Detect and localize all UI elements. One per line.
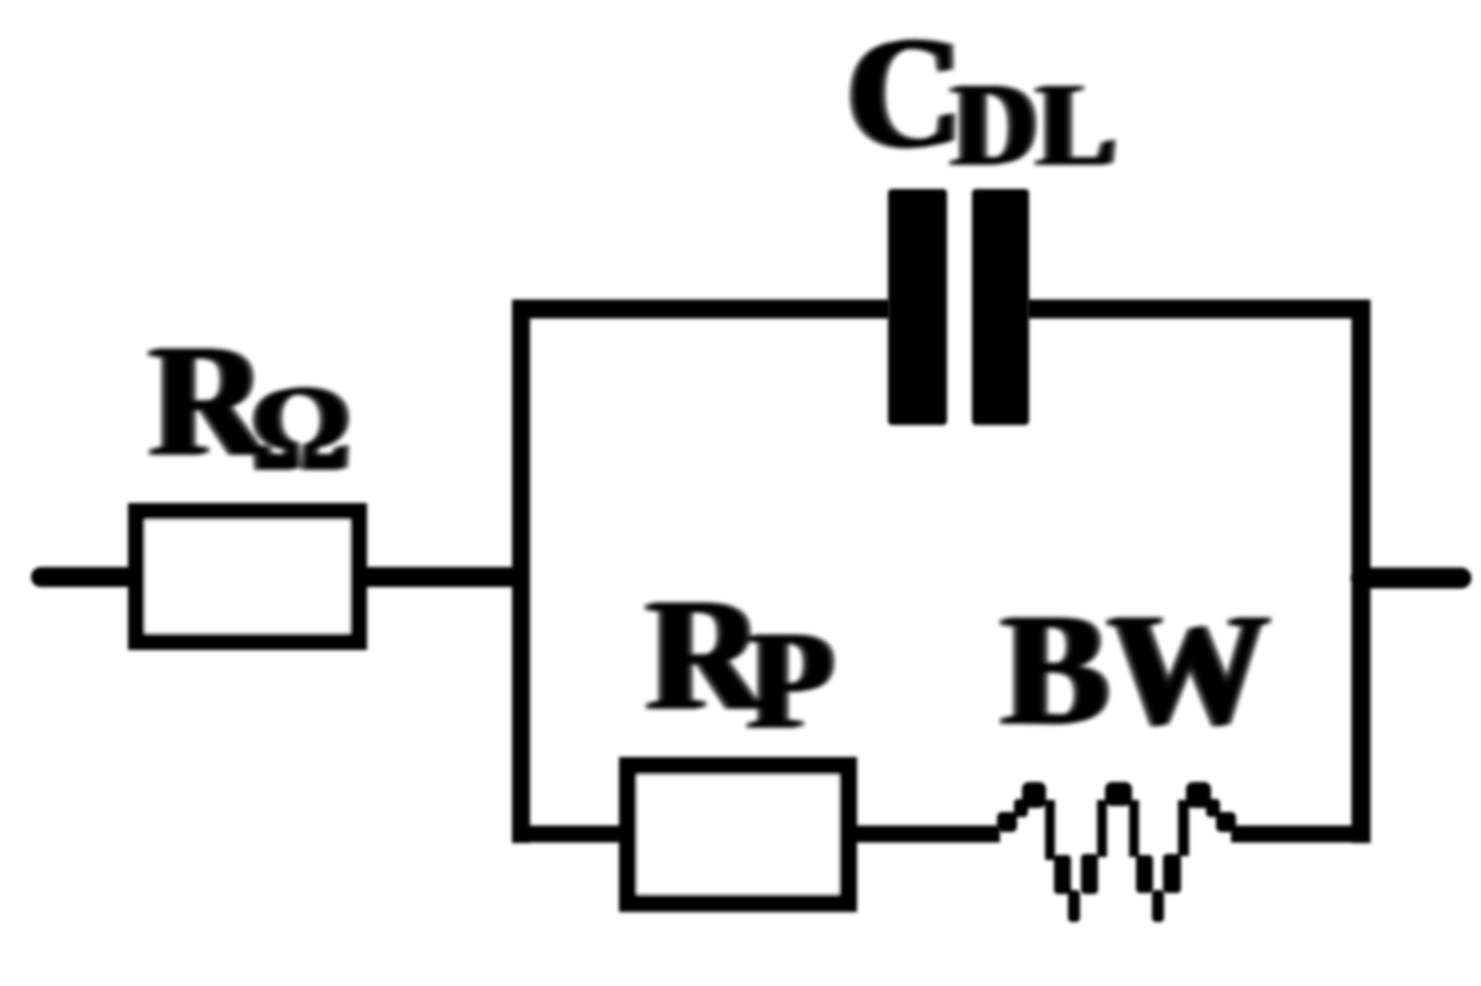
capacitor left plate (888, 189, 947, 425)
wire: loop top right segment (1027, 300, 1370, 319)
svg-text:DL: DL (952, 59, 1116, 190)
wire: loop bottom right segment (1231, 826, 1370, 843)
wire: right output lead (1361, 568, 1461, 589)
wire: left input lead (41, 567, 132, 587)
resistor R-ohm body (137, 512, 359, 642)
svg-text:C: C (847, 3, 963, 181)
capacitor right plate (972, 189, 1029, 425)
ghost copies (145, 4, 1264, 759)
Warburg element BW squiggle (997, 782, 1236, 922)
svg-text:Ω: Ω (252, 361, 350, 496)
svg-text:R: R (150, 311, 267, 489)
svg-text:R: R (647, 565, 764, 743)
wire: loop left vertical (512, 300, 530, 843)
svg-text:P: P (748, 603, 834, 758)
wire: loop right vertical (1352, 300, 1371, 843)
capacitor C-DL plates (888, 189, 1029, 425)
wire: loop bottom middle segment (851, 826, 1000, 843)
wire: loop top left segment (512, 300, 890, 319)
wire: loop bottom left segment (512, 826, 625, 843)
resistor Rp body (628, 766, 848, 903)
svg-text:BW: BW (1002, 580, 1269, 758)
wire: R-ohm box to loop left wire (363, 567, 528, 587)
